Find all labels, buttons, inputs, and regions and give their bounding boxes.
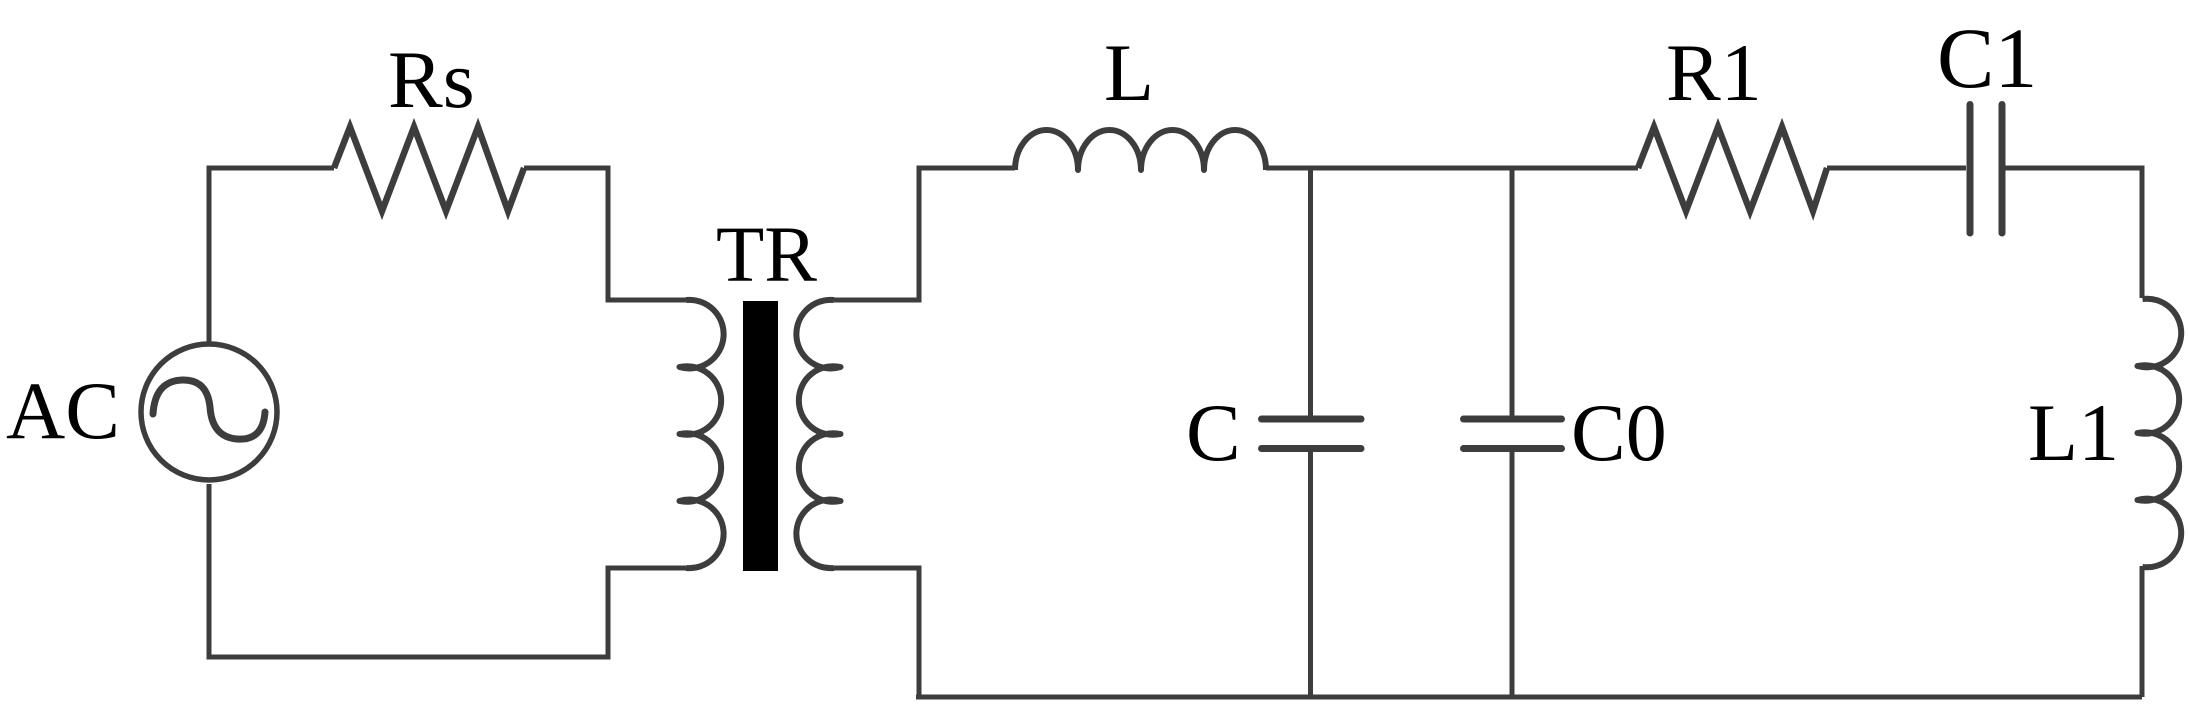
wire bbox=[1308, 168, 1313, 416]
resistor Rs bbox=[334, 127, 524, 211]
svg-text:AC: AC bbox=[6, 365, 120, 456]
svg-text:C: C bbox=[1186, 387, 1241, 478]
transformer TR core bbox=[743, 301, 778, 571]
wire bbox=[1510, 449, 1515, 697]
capacitor C0 bbox=[1464, 419, 1562, 449]
wire bbox=[1827, 166, 1966, 171]
capacitor C1 bbox=[1970, 105, 2002, 234]
wire bbox=[1266, 166, 1638, 171]
wire bbox=[1308, 449, 1313, 697]
inductor L bbox=[1015, 130, 1266, 170]
transformer TR primary winding bbox=[680, 300, 724, 568]
AC source bbox=[141, 344, 277, 480]
inductor L1 bbox=[2138, 299, 2182, 568]
wire bbox=[209, 484, 686, 657]
svg-text:L1: L1 bbox=[2028, 387, 2119, 478]
wire bbox=[1510, 168, 1515, 416]
capacitor C bbox=[1262, 419, 1362, 449]
wire bbox=[834, 568, 919, 697]
wire bbox=[916, 695, 2142, 700]
transformer TR secondary winding bbox=[796, 300, 840, 568]
svg-text:C0: C0 bbox=[1571, 387, 1667, 478]
wire bbox=[209, 168, 334, 343]
wire bbox=[2005, 168, 2142, 298]
svg-text:Rs: Rs bbox=[388, 34, 475, 125]
wire bbox=[2140, 566, 2145, 697]
wire bbox=[834, 168, 1015, 300]
svg-text:C1: C1 bbox=[1937, 10, 2037, 106]
svg-text:R1: R1 bbox=[1666, 27, 1762, 118]
svg-text:TR: TR bbox=[716, 212, 817, 299]
resistor R1 bbox=[1638, 127, 1827, 211]
svg-text:L: L bbox=[1104, 27, 1154, 118]
wire bbox=[524, 168, 686, 300]
